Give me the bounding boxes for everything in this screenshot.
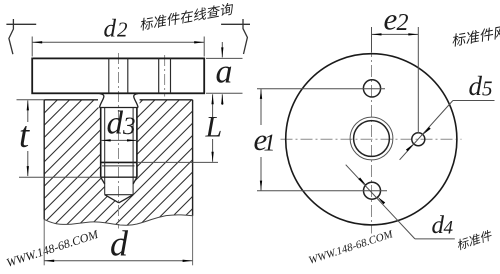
svg-text:d: d [110,224,129,264]
svg-text:2: 2 [117,18,128,42]
svg-text:L: L [205,111,223,144]
svg-text:4: 4 [444,217,454,238]
svg-text:d: d [469,71,483,101]
svg-text:a: a [216,54,233,91]
svg-text:d: d [107,106,124,142]
svg-text:2: 2 [397,10,409,36]
svg-text:3: 3 [122,113,136,140]
svg-text:t: t [19,114,30,155]
svg-text:5: 5 [482,76,493,100]
svg-text:d: d [104,15,117,42]
svg-text:e: e [384,2,398,37]
svg-text:1: 1 [264,131,276,157]
